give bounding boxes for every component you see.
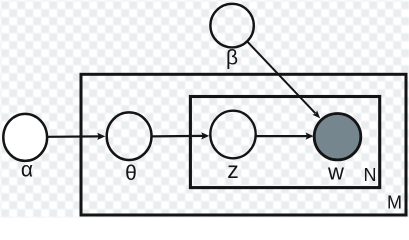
node alpha (white circle) — [3, 114, 47, 161]
node beta (open circle, top) — [210, 4, 253, 48]
svg-text:β: β — [226, 47, 238, 70]
arrow beta to w — [247, 42, 315, 114]
plate M (outer rectangle) — [81, 74, 406, 215]
svg-text:w: w — [327, 160, 344, 185]
svg-text:N: N — [364, 165, 377, 185]
plate N (inner rectangle) — [190, 97, 379, 188]
arrow alpha to theta — [48, 135, 100, 138]
arrow theta to z — [152, 135, 203, 138]
svg-text:z: z — [227, 157, 239, 183]
node w (gray filled circle) — [314, 114, 361, 160]
arrow z to w — [256, 135, 307, 137]
svg-text:α: α — [21, 159, 33, 182]
node z (open circle) — [210, 111, 255, 159]
node theta (open circle) — [107, 112, 152, 160]
svg-text:M: M — [387, 192, 402, 212]
svg-text:θ: θ — [125, 162, 137, 185]
